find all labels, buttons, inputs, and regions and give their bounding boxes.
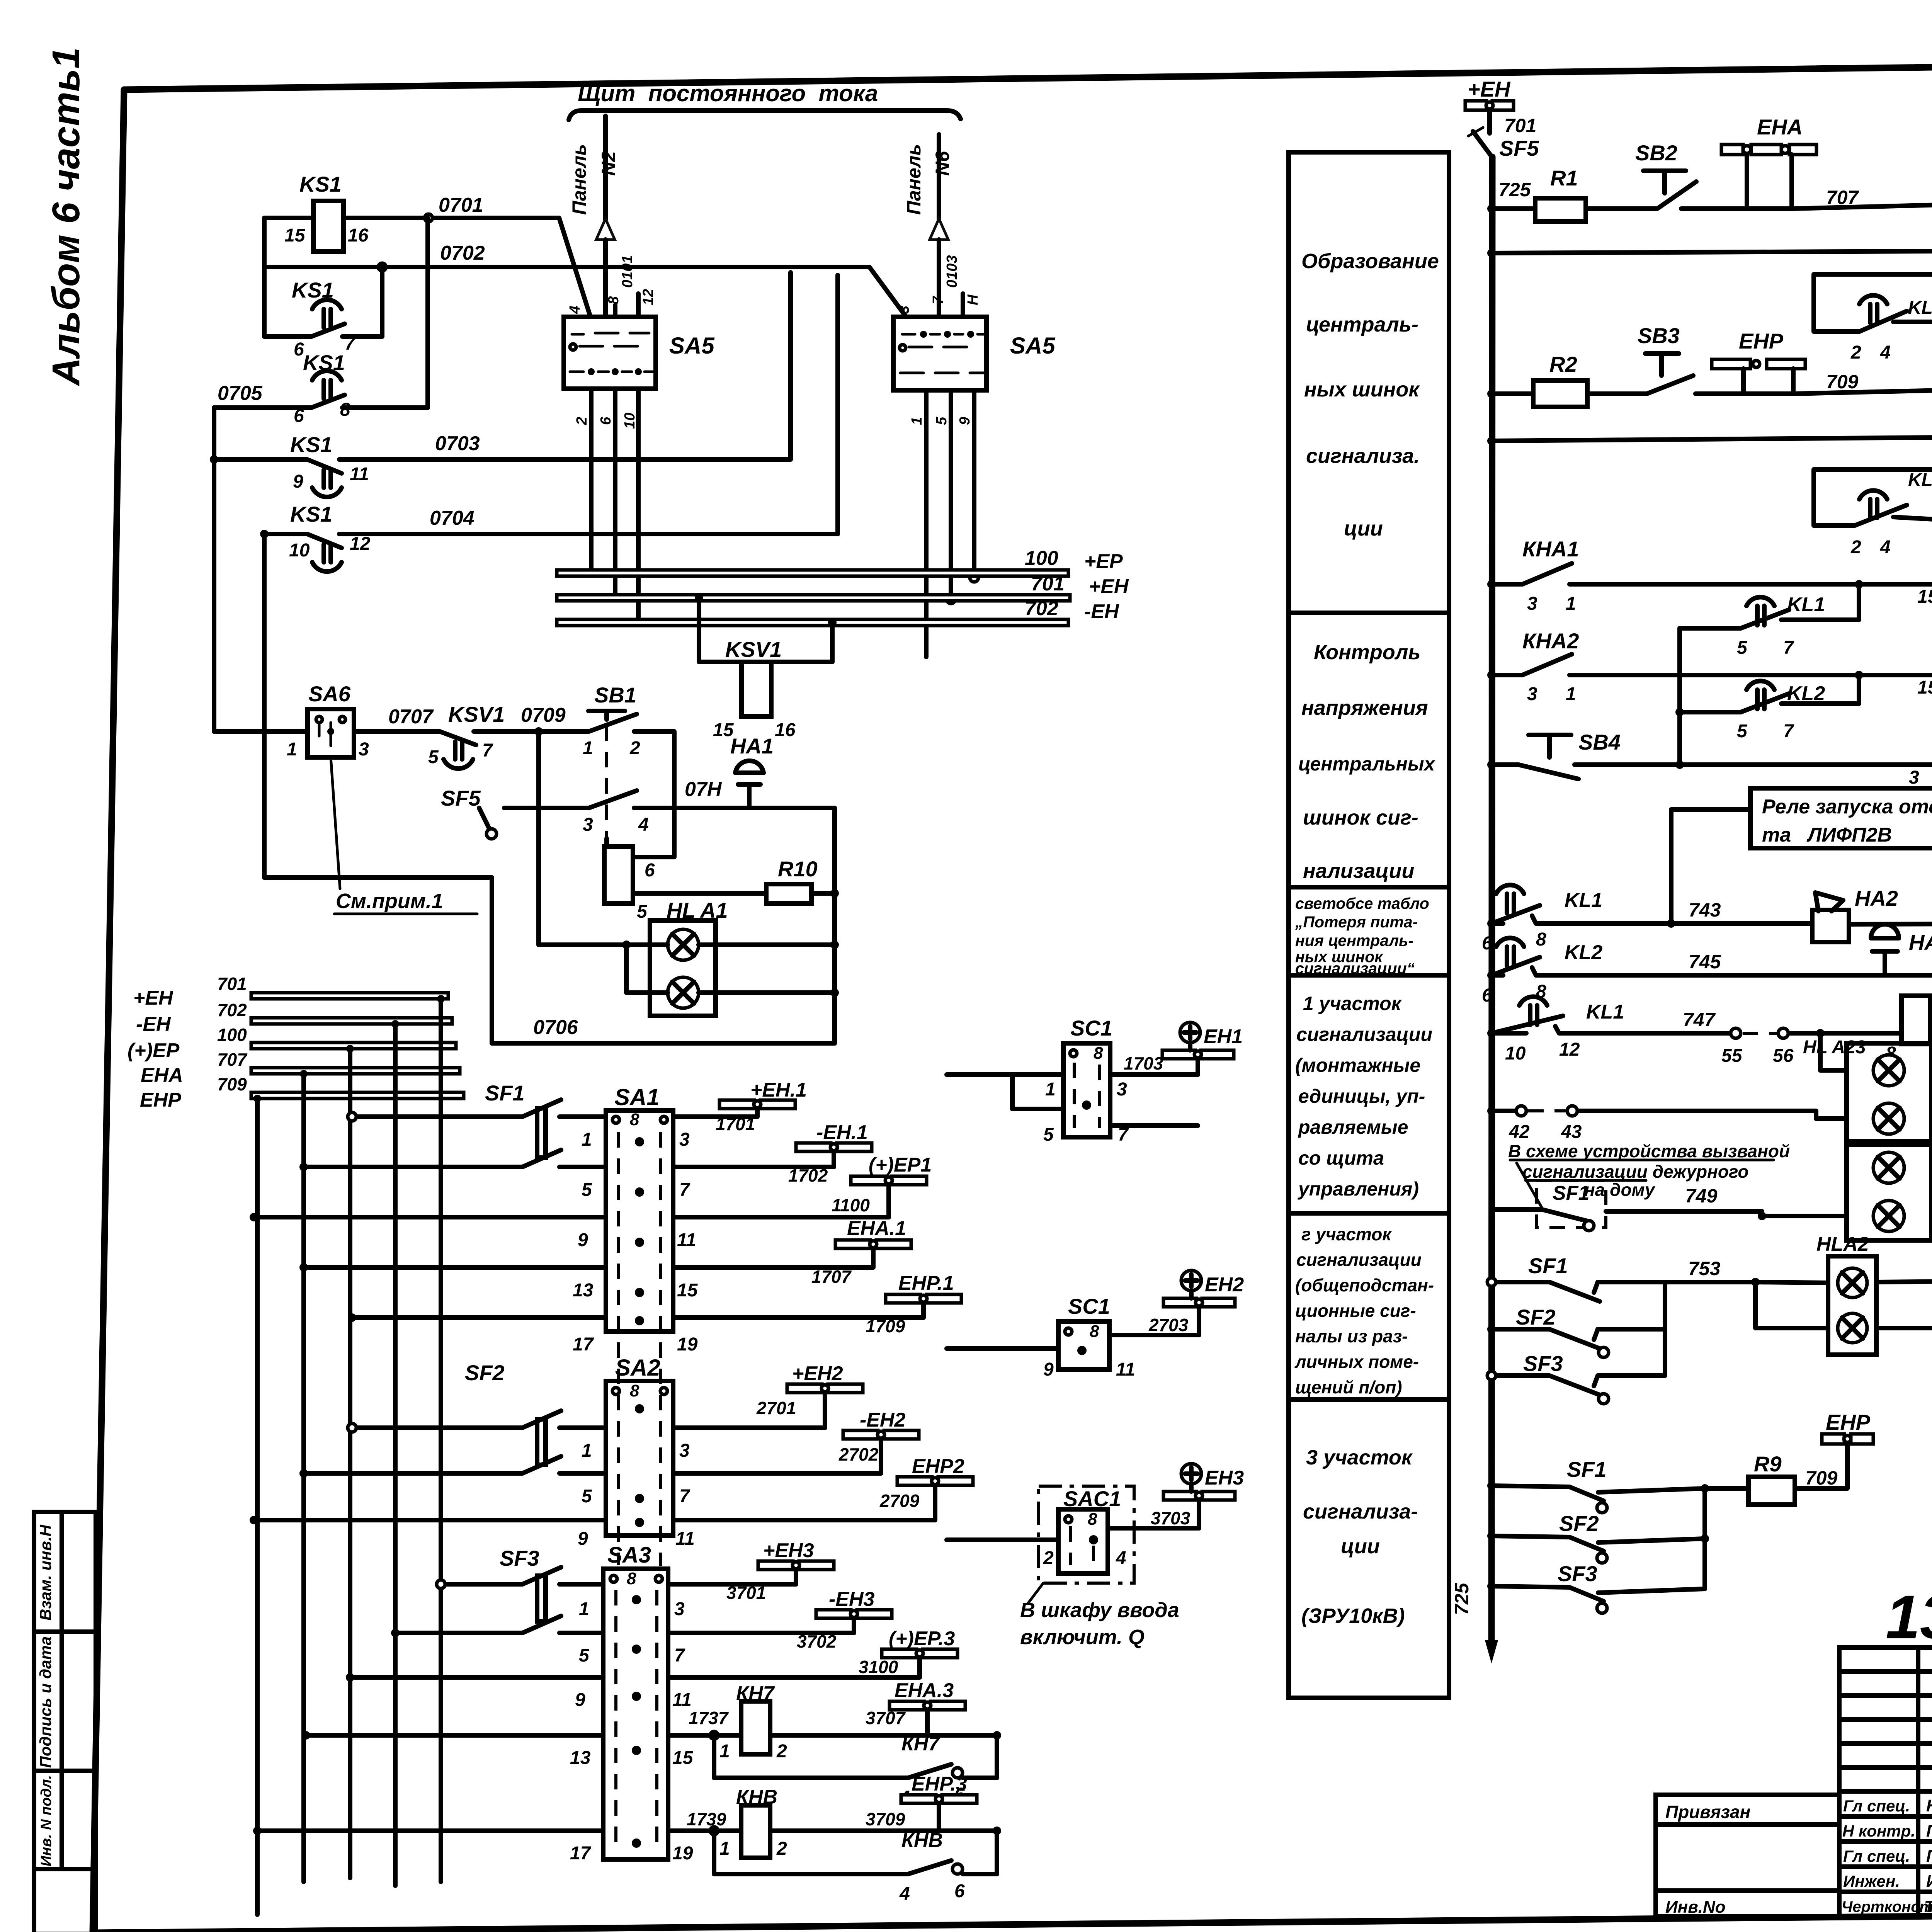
MIDCOL: [1289, 152, 1449, 1698]
svg-text:КНВ: КНВ: [901, 1829, 943, 1852]
svg-text:включит. Q: включит. Q: [1020, 1626, 1145, 1649]
svg-text:ции: ции: [1344, 517, 1383, 540]
KSV1 contact: [440, 731, 539, 745]
SA2 flags: [673, 1393, 825, 1428]
svg-text:4: 4: [567, 306, 583, 314]
RIGHTCIRCUIT: [1451, 77, 1932, 1663]
svg-text:6: 6: [294, 406, 304, 426]
svg-text:КНА2: КНА2: [1522, 629, 1579, 653]
svg-text:SF5: SF5: [1499, 136, 1539, 160]
svg-text:SA2: SA2: [615, 1355, 660, 1381]
svg-text:8: 8: [1536, 929, 1546, 950]
svg-text:+ЕР: +ЕР: [1084, 550, 1123, 573]
svg-text:ЕНР: ЕНР: [1826, 1410, 1871, 1434]
svg-text:3: 3: [674, 1599, 685, 1619]
panel N6 arrow: [937, 134, 941, 219]
svg-text:-ЕН: -ЕН: [1084, 600, 1119, 623]
svg-text:SC1: SC1: [1070, 1016, 1112, 1040]
svg-text:1: 1: [583, 738, 593, 759]
svg-text:сигнализации“: сигнализации“: [1295, 959, 1415, 977]
main title table: [1839, 1648, 1932, 1917]
svg-text:1701: 1701: [716, 1114, 755, 1134]
svg-text:2: 2: [1043, 1548, 1054, 1568]
svg-text:0703: 0703: [435, 432, 480, 455]
svg-text:+ЕН: +ЕН: [133, 987, 173, 1009]
SA3 flags: [668, 1570, 796, 1584]
terminals 42 43: [1492, 1109, 1515, 1113]
svg-text:56: 56: [1773, 1046, 1794, 1066]
svg-text:Инв.Nо: Инв.Nо: [1665, 1898, 1726, 1917]
svg-text:Горелик: Горелик: [1926, 1847, 1932, 1866]
svg-text:(+)ЕР1: (+)ЕР1: [869, 1154, 932, 1176]
SA5 no2 bottom pins: [926, 390, 974, 657]
svg-text:SF3: SF3: [500, 1546, 539, 1570]
svg-text:1702: 1702: [788, 1165, 828, 1185]
svg-text:709: 709: [217, 1074, 247, 1094]
svg-text:17: 17: [570, 1843, 592, 1864]
svg-text:15: 15: [284, 225, 306, 246]
svg-text:17: 17: [573, 1334, 594, 1355]
row2: [1492, 251, 1932, 253]
svg-text:сигнализа-: сигнализа-: [1303, 1500, 1418, 1523]
svg-text:5: 5: [1043, 1124, 1054, 1145]
svg-text:3100: 3100: [859, 1657, 898, 1677]
svg-text:SF2: SF2: [1516, 1305, 1556, 1329]
svg-text:шинок сиг-: шинок сиг-: [1303, 806, 1418, 829]
svg-text:2: 2: [1850, 537, 1861, 558]
svg-text:07Н: 07Н: [685, 778, 722, 801]
SA6 row: [214, 408, 308, 731]
TITLEBLOCK: [1656, 1582, 1932, 1932]
svg-text:2701: 2701: [756, 1398, 796, 1418]
svg-text:1: 1: [1566, 594, 1576, 614]
svg-text:747: 747: [1683, 1009, 1716, 1031]
box5 text: [1294, 1224, 1434, 1397]
svg-text:SF5: SF5: [441, 786, 481, 810]
svg-text:2702: 2702: [838, 1444, 879, 1464]
svg-text:ЕНА.3: ЕНА.3: [895, 1679, 954, 1702]
svg-text:5: 5: [1737, 721, 1748, 742]
svg-text:ции: ции: [1341, 1535, 1380, 1558]
annex table: [1656, 1795, 1839, 1917]
svg-text:KS1: KS1: [290, 432, 332, 457]
svg-text:749: 749: [1685, 1185, 1718, 1207]
svg-text:сигнализации: сигнализации: [1296, 1250, 1422, 1270]
svg-text:SA5: SA5: [1010, 333, 1056, 359]
svg-text:Иванова: Иванова: [1926, 1872, 1932, 1891]
svg-text:Альбом 6 часть1: Альбом 6 часть1: [44, 47, 88, 386]
svg-text:15: 15: [677, 1280, 698, 1301]
svg-text:KSV1: KSV1: [448, 702, 505, 726]
border top: [124, 58, 1932, 90]
svg-text:7: 7: [930, 296, 946, 304]
svg-text:Инв. N подл.: Инв. N подл.: [38, 1775, 54, 1866]
svg-text:0702: 0702: [440, 242, 485, 264]
svg-text:2: 2: [776, 1838, 787, 1859]
svg-text:709: 709: [1826, 371, 1859, 393]
svg-text:Инжен.: Инжен.: [1843, 1872, 1900, 1890]
svg-text:Н контр.: Н контр.: [1842, 1822, 1915, 1840]
svg-text:„Потеря пита-: „Потеря пита-: [1295, 913, 1418, 931]
HLA2 right: [1876, 1279, 1932, 1328]
svg-text:Горелик: Горелик: [1926, 1821, 1932, 1840]
svg-text:1: 1: [582, 1440, 592, 1461]
svg-text:В схеме устройства вызваной: В схеме устройства вызваной: [1508, 1141, 1790, 1161]
svg-text:SF1: SF1: [1553, 1182, 1589, 1204]
svg-text:центральных: центральных: [1298, 753, 1436, 775]
svg-text:6: 6: [645, 860, 655, 881]
speaker HA2: [1812, 910, 1849, 942]
border left: [93, 90, 124, 1932]
wire row 725 to KHA2 pin21: [1587, 376, 1932, 394]
svg-text:Гл спец.: Гл спец.: [1843, 1797, 1910, 1815]
svg-text:сигнализа.: сигнализа.: [1306, 444, 1420, 468]
SA5 no1 bottom pins: [591, 389, 638, 622]
svg-text:6: 6: [1482, 933, 1492, 954]
svg-text:707: 707: [217, 1049, 248, 1070]
svg-text:R2: R2: [1549, 352, 1577, 376]
svg-text:55: 55: [1721, 1046, 1743, 1066]
SB1 element 5-6: [604, 847, 633, 903]
svg-text:3: 3: [679, 1129, 690, 1150]
svg-text:0709: 0709: [521, 704, 566, 726]
svg-text:(+)ЕР.3: (+)ЕР.3: [889, 1628, 955, 1650]
svg-text:0704: 0704: [430, 507, 474, 529]
svg-text:SF1: SF1: [1567, 1457, 1607, 1481]
svg-text:+ЕН.1: +ЕН.1: [750, 1079, 807, 1101]
svg-text:100: 100: [217, 1025, 247, 1045]
svg-text:SF3: SF3: [1523, 1351, 1563, 1376]
svg-text:745: 745: [1689, 951, 1721, 973]
svg-text:(общеподстан-: (общеподстан-: [1295, 1275, 1434, 1295]
svg-text:ЕН1: ЕН1: [1204, 1026, 1243, 1048]
svg-text:-ЕН: -ЕН: [136, 1013, 171, 1036]
svg-text:централь-: централь-: [1306, 313, 1418, 336]
KL1 aux rect: [1814, 274, 1932, 332]
svg-text:N6: N6: [932, 151, 953, 176]
svg-text:100: 100: [1025, 547, 1058, 570]
svg-text:напряжения: напряжения: [1301, 696, 1428, 719]
box3 small text: [1295, 895, 1429, 977]
SAC1: [1039, 1486, 1134, 1583]
svg-text:(+)ЕР: (+)ЕР: [128, 1039, 180, 1062]
svg-text:10: 10: [1505, 1043, 1526, 1064]
svg-text:Взам. инв.Н: Взам. инв.Н: [36, 1524, 54, 1621]
svg-text:5: 5: [934, 417, 950, 425]
svg-text:5: 5: [579, 1645, 590, 1666]
svg-text:0706: 0706: [533, 1016, 578, 1039]
svg-text:г участок: г участок: [1301, 1224, 1392, 1244]
svg-text:ЕНР.3: ЕНР.3: [912, 1773, 967, 1795]
svg-text:1100: 1100: [832, 1195, 870, 1215]
top buses: [557, 570, 1068, 576]
svg-text:та ЛИФП2В: та ЛИФП2В: [1762, 824, 1892, 846]
svg-text:5: 5: [428, 747, 439, 767]
svg-text:2709: 2709: [879, 1491, 920, 1511]
svg-text:1: 1: [909, 417, 925, 425]
svg-text:В шкафу ввода: В шкафу ввода: [1020, 1599, 1179, 1622]
svg-text:12: 12: [350, 534, 371, 554]
svg-text:16: 16: [775, 720, 796, 740]
svg-text:личных поме-: личных поме-: [1294, 1352, 1419, 1372]
svg-text:702: 702: [1025, 597, 1058, 620]
svg-text:4: 4: [1880, 537, 1891, 558]
svg-text:1 участок: 1 участок: [1303, 993, 1402, 1014]
svg-text:Образование: Образование: [1301, 250, 1439, 273]
svg-text:KL1: KL1: [1586, 1001, 1624, 1023]
svg-text:НА2: НА2: [1855, 886, 1898, 910]
svg-text:3 участок: 3 участок: [1306, 1446, 1413, 1469]
panel N2 arrow: [603, 116, 608, 219]
box4 text: [1295, 993, 1432, 1200]
svg-text:1: 1: [719, 1838, 730, 1859]
svg-text:701: 701: [1504, 115, 1536, 136]
svg-text:+ЕН2: +ЕН2: [792, 1362, 843, 1385]
svg-text:КНА1: КНА1: [1522, 537, 1579, 561]
svg-text:KS1: KS1: [299, 172, 342, 196]
svg-text:13276: 13276: [1886, 1582, 1932, 1651]
svg-text:725: 725: [1451, 1582, 1473, 1615]
svg-text:8: 8: [1088, 1510, 1097, 1529]
svg-text:753: 753: [1688, 1258, 1721, 1279]
svg-text:2: 2: [629, 738, 640, 759]
svg-text:НА1: НА1: [730, 734, 774, 758]
svg-text:ЕНА.1: ЕНА.1: [847, 1217, 906, 1240]
bus verticals: [257, 999, 441, 1831]
svg-text:Тимофеева: Тимофеева: [1924, 1897, 1932, 1915]
svg-text:KL1: KL1: [1565, 889, 1602, 912]
svg-text:6: 6: [294, 339, 304, 360]
svg-text:ЕН2: ЕН2: [1205, 1274, 1244, 1296]
svg-text:4: 4: [1880, 342, 1891, 363]
svg-text:1: 1: [1045, 1079, 1056, 1100]
svg-text:R1: R1: [1550, 166, 1578, 190]
svg-text:11: 11: [1116, 1359, 1135, 1380]
svg-text:7: 7: [679, 1180, 690, 1200]
svg-text:SF3: SF3: [1558, 1561, 1597, 1586]
SA1 flags: [673, 1108, 757, 1117]
wire row 725 to KHA1 pin21: [1586, 182, 1932, 209]
svg-text:Подпись и дата: Подпись и дата: [36, 1636, 54, 1768]
svg-text:4: 4: [899, 1884, 910, 1904]
svg-text:3: 3: [359, 739, 369, 760]
svg-text:ЕНР.1: ЕНР.1: [898, 1272, 954, 1294]
svg-text:0101: 0101: [619, 255, 636, 288]
svg-text:1739: 1739: [687, 1809, 726, 1829]
svg-text:5: 5: [582, 1486, 592, 1507]
svg-text:15: 15: [1917, 677, 1932, 698]
svg-text:2: 2: [1850, 342, 1861, 363]
svg-text:KS1: KS1: [290, 502, 332, 526]
svg-text:SA3: SA3: [607, 1543, 651, 1568]
svg-text:702: 702: [217, 1000, 247, 1020]
svg-text:0701: 0701: [439, 194, 483, 216]
svg-text:(монтажные: (монтажные: [1295, 1054, 1420, 1076]
note box Rele zapuska LIFP2V: [1750, 788, 1932, 848]
border bottom: [93, 1910, 1932, 1932]
svg-text:(ЗРУ10кВ): (ЗРУ10кВ): [1301, 1604, 1405, 1628]
svg-text:7: 7: [345, 333, 356, 354]
svg-text:3: 3: [1909, 767, 1919, 788]
svg-text:8: 8: [630, 1110, 639, 1129]
svg-text:8: 8: [630, 1381, 639, 1400]
svg-text:на дому: на дому: [1584, 1180, 1656, 1200]
svg-text:налы из раз-: налы из раз-: [1295, 1326, 1408, 1346]
svg-text:725: 725: [1498, 179, 1531, 201]
svg-text:ционные сиг-: ционные сиг-: [1295, 1301, 1416, 1321]
SA5 no2: [893, 317, 986, 390]
svg-text:KL1: KL1: [1787, 594, 1825, 616]
svg-text:управления): управления): [1297, 1178, 1419, 1200]
svg-text:3702: 3702: [797, 1631, 837, 1651]
svg-text:707: 707: [1826, 187, 1859, 208]
svg-text:11: 11: [675, 1529, 695, 1549]
svg-text:743: 743: [1689, 899, 1721, 921]
svg-text:KSV1: KSV1: [725, 637, 782, 662]
svg-text:+ЕН: +ЕН: [1468, 77, 1511, 101]
svg-text:ЕНР: ЕНР: [1739, 329, 1784, 353]
svg-text:НА4: НА4: [1909, 930, 1932, 954]
svg-text:43: 43: [1561, 1122, 1582, 1142]
svg-text:R9: R9: [1754, 1452, 1782, 1476]
svg-text:1703: 1703: [1124, 1053, 1163, 1073]
svg-text:KL2: KL2: [1908, 470, 1932, 490]
svg-text:0103: 0103: [944, 255, 960, 288]
svg-text:7: 7: [679, 1486, 690, 1507]
SB1 lower contact: [539, 791, 736, 945]
svg-text:8: 8: [1090, 1322, 1099, 1341]
svg-text:КН7: КН7: [901, 1733, 940, 1755]
svg-text:3: 3: [1117, 1079, 1127, 1100]
svg-text:3: 3: [1527, 594, 1537, 614]
svg-text:1: 1: [579, 1599, 589, 1619]
svg-text:13: 13: [570, 1748, 591, 1768]
svg-text:1: 1: [719, 1741, 730, 1762]
svg-text:9: 9: [578, 1230, 588, 1250]
svg-text:701: 701: [217, 974, 247, 994]
svg-text:7: 7: [1783, 721, 1794, 742]
svg-text:42: 42: [1509, 1122, 1530, 1142]
svg-text:сигнализации: сигнализации: [1296, 1024, 1432, 1045]
svg-text:2: 2: [776, 1741, 787, 1762]
LEFTCIRCUIT: [128, 80, 1244, 1915]
svg-text:8: 8: [627, 1569, 636, 1588]
svg-text:Панель: Панель: [568, 144, 590, 215]
svg-text:светобсе табло: светобсе табло: [1295, 895, 1429, 912]
svg-text:19: 19: [672, 1843, 693, 1864]
svg-text:нализации: нализации: [1303, 859, 1414, 883]
lamp panel HLA23 and HLA20: [1847, 1043, 1931, 1141]
svg-text:3703: 3703: [1151, 1508, 1190, 1528]
svg-text:2703: 2703: [1148, 1315, 1189, 1335]
svg-text:SF2: SF2: [465, 1361, 505, 1385]
svg-text:6: 6: [954, 1881, 965, 1901]
svg-text:6: 6: [598, 417, 614, 425]
svg-text:2: 2: [574, 417, 590, 425]
svg-text:SB3: SB3: [1638, 323, 1680, 348]
svg-text:8: 8: [605, 296, 622, 304]
svg-text:15: 15: [1917, 587, 1932, 607]
svg-text:709: 709: [1805, 1467, 1838, 1489]
svg-text:щений п/оп): щений п/оп): [1295, 1377, 1402, 1397]
svg-text:-ЕН3: -ЕН3: [829, 1588, 875, 1611]
svg-text:SA5: SA5: [669, 333, 715, 359]
svg-text:равляемые: равляемые: [1298, 1116, 1408, 1138]
svg-text:5: 5: [637, 901, 648, 922]
svg-text:6: 6: [1482, 985, 1492, 1006]
svg-text:Панель: Панель: [903, 144, 925, 215]
svg-text:SB4: SB4: [1578, 730, 1621, 754]
svg-text:1: 1: [1566, 684, 1576, 704]
svg-text:Гл спец.: Гл спец.: [1843, 1847, 1910, 1865]
svg-text:9: 9: [575, 1690, 585, 1710]
svg-text:KL2: KL2: [1565, 941, 1602, 964]
svg-text:7: 7: [674, 1645, 685, 1666]
svg-text:со щита: со щита: [1298, 1147, 1384, 1169]
KL2 aux rect: [1814, 469, 1932, 526]
svg-text:11: 11: [350, 464, 369, 485]
svg-text:1737: 1737: [689, 1708, 729, 1728]
svg-text:ЕНА: ЕНА: [1757, 115, 1803, 139]
svg-text:15: 15: [672, 1748, 694, 1768]
svg-text:8: 8: [340, 400, 350, 420]
svg-text:ЕНР: ЕНР: [140, 1089, 181, 1111]
svg-text:7: 7: [482, 740, 493, 761]
svg-text:4: 4: [638, 815, 649, 835]
svg-text:5: 5: [582, 1180, 592, 1200]
svg-text:13: 13: [573, 1280, 594, 1301]
svg-text:SA1: SA1: [614, 1084, 660, 1110]
svg-text:3: 3: [896, 306, 912, 314]
svg-text:SB2: SB2: [1635, 141, 1677, 165]
svg-text:+ЕН: +ЕН: [1089, 575, 1129, 598]
switch SF1 dashed: [1536, 1180, 1606, 1228]
svg-text:10: 10: [289, 540, 310, 561]
svg-text:Никитин: Никитин: [1926, 1796, 1932, 1815]
svg-text:ния централь-: ния централь-: [1295, 932, 1413, 949]
svg-text:Контроль: Контроль: [1314, 641, 1420, 664]
LEFTMARGIN: [34, 47, 96, 1932]
svg-text:10: 10: [622, 413, 638, 429]
relay coil KT1: [1901, 996, 1930, 1044]
725 bus: [1492, 157, 1492, 1640]
svg-text:3: 3: [1527, 684, 1537, 704]
svg-text:1: 1: [287, 739, 297, 760]
svg-text:-ЕН2: -ЕН2: [860, 1409, 906, 1431]
svg-text:N2: N2: [598, 151, 619, 176]
svg-text:11: 11: [672, 1690, 692, 1710]
svg-text:1: 1: [582, 1129, 592, 1150]
svg-text:HLА2: HLА2: [1816, 1233, 1869, 1255]
svg-text:сигнализации дежурного: сигнализации дежурного: [1522, 1162, 1749, 1182]
svg-text:SF2: SF2: [1559, 1511, 1599, 1536]
svg-text:12: 12: [640, 289, 656, 305]
svg-text:KL1: KL1: [1908, 298, 1932, 318]
svg-text:Щит постоянного тока: Щит постоянного тока: [578, 80, 878, 106]
svg-text:HL A23: HL A23: [1803, 1037, 1866, 1058]
svg-text:0707: 0707: [388, 706, 434, 728]
svg-text:12: 12: [1559, 1039, 1580, 1060]
svg-text:единицы, уп-: единицы, уп-: [1298, 1085, 1425, 1107]
stamp boxes column: [34, 1512, 96, 1932]
svg-text:1709: 1709: [866, 1316, 905, 1336]
svg-text:9: 9: [578, 1529, 588, 1549]
svg-text:См.прим.1: См.прим.1: [336, 889, 443, 913]
svg-text:8: 8: [1094, 1044, 1103, 1063]
svg-text:4: 4: [1116, 1548, 1126, 1568]
svg-text:11: 11: [677, 1230, 696, 1250]
svg-text:Чертконст.: Чертконст.: [1842, 1898, 1932, 1915]
